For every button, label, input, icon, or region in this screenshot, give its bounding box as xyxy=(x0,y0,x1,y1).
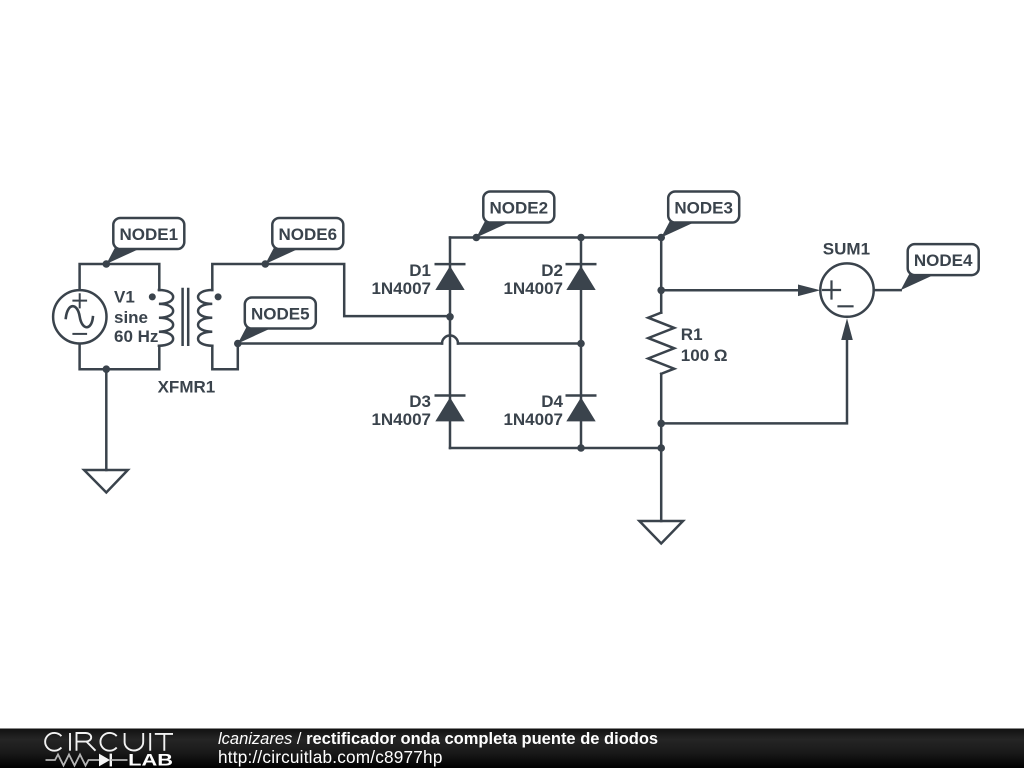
svg-text:R1: R1 xyxy=(681,325,703,344)
svg-text:NODE1: NODE1 xyxy=(120,225,179,244)
svg-text:1N4007: 1N4007 xyxy=(371,410,431,429)
svg-text:D4: D4 xyxy=(541,392,563,411)
svg-text:1N4007: 1N4007 xyxy=(503,410,563,429)
svg-text:NODE5: NODE5 xyxy=(251,304,310,323)
svg-text:NODE2: NODE2 xyxy=(490,198,549,217)
svg-text:XFMR1: XFMR1 xyxy=(158,378,216,397)
svg-text:100 Ω: 100 Ω xyxy=(681,346,728,365)
svg-text:V1: V1 xyxy=(114,288,135,307)
svg-text:D3: D3 xyxy=(409,392,431,411)
svg-text:SUM1: SUM1 xyxy=(823,240,870,259)
svg-text:1N4007: 1N4007 xyxy=(371,279,431,298)
svg-text:1N4007: 1N4007 xyxy=(503,279,563,298)
svg-text:D1: D1 xyxy=(409,261,431,280)
svg-text:60 Hz: 60 Hz xyxy=(114,327,158,346)
svg-text:lcanizares / rectificador onda: lcanizares / rectificador onda completa … xyxy=(218,730,658,748)
svg-text:LAB: LAB xyxy=(128,752,173,768)
svg-text:http://circuitlab.com/c8977hp: http://circuitlab.com/c8977hp xyxy=(218,747,443,767)
svg-text:NODE3: NODE3 xyxy=(674,198,733,217)
svg-text:NODE4: NODE4 xyxy=(914,251,973,270)
svg-text:D2: D2 xyxy=(541,261,563,280)
svg-text:NODE6: NODE6 xyxy=(279,225,338,244)
svg-text:sine: sine xyxy=(114,308,148,327)
